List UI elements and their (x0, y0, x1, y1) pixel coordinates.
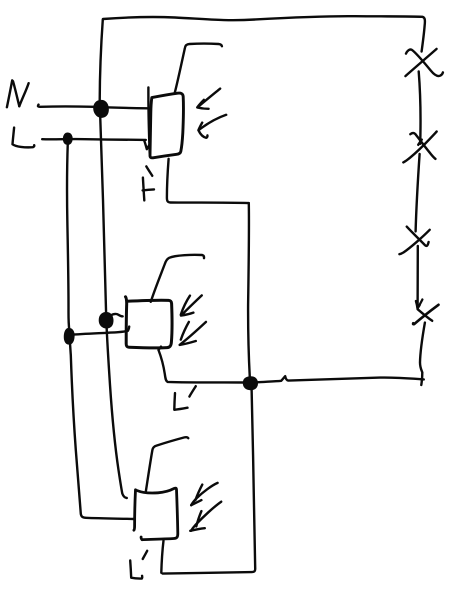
arrow A1 (upper arrow at S1) (198, 89, 220, 107)
switch S3 left edge (134, 490, 136, 530)
switch S3 box (137, 488, 178, 540)
wire S2 stub up (151, 255, 204, 302)
junction dot B (L riser to S2 tap) (65, 329, 73, 343)
label N (7, 80, 12, 107)
wire lamp chain bottom (from X4 down to return corner) (420, 323, 425, 385)
lamp X4 (413, 305, 438, 324)
label L'2 apostrophe (189, 386, 195, 396)
arrow A5 (upper arrow at S3) (191, 483, 217, 505)
junction dot A tail (111, 314, 123, 316)
lamp X1 (406, 50, 443, 76)
junction dot C (244, 378, 256, 389)
wire N feed (horizontal from N label to switch S1) (38, 105, 147, 109)
label L'1 apostrophe (146, 166, 152, 175)
junction N dot (95, 101, 107, 116)
wire S1 out (down then right to trunk) (167, 159, 249, 203)
wire S2 out (down then right to junction C) (159, 347, 245, 383)
arrow A2 (lower arrow at S1) (199, 115, 226, 130)
junction L dot (64, 134, 71, 144)
label L'3 (130, 561, 142, 579)
wire L feed end tick (144, 141, 150, 150)
arrow A4 (lower arrow at S2) (181, 322, 189, 340)
arrow A3 (upper arrow at S2) (181, 296, 190, 315)
wire X3-X4 with arrowhead (416, 246, 419, 308)
switch S2 box (126, 297, 173, 348)
wire C to lamp return (horizontal right) (257, 376, 424, 382)
wire top feed (top border from left riser to lamp chain) (103, 16, 425, 51)
wire S3 stub up (146, 437, 189, 492)
wire L riser (vertical from L junction down, then to bottom switch S3) (67, 143, 134, 520)
wire B tap to switch S2 (horizontal) (71, 327, 130, 335)
wire S3 return down (161, 541, 163, 573)
arrow A6 (lower arrow at S3) (191, 502, 221, 531)
switch S1 box (150, 93, 183, 158)
label L (13, 128, 35, 148)
wire X1-X2 (419, 72, 421, 144)
wire L feed (horizontal from L label to switch S1) (42, 138, 146, 141)
label L'1 (143, 178, 144, 201)
wire trunk below C (down, corner, left to S3 return) (163, 389, 256, 574)
junction dot A (N riser at S2) (100, 313, 112, 327)
lamp X2 (410, 133, 435, 159)
wire X2-X3 (416, 154, 420, 231)
wire left riser N (vertical from top border down to bottom switch) (100, 20, 127, 499)
wire S1 stub up (175, 44, 222, 93)
lamp X2 tick (418, 140, 422, 145)
label L'2 (174, 393, 187, 410)
switch S1 left line (148, 87, 149, 153)
lamp X3 (407, 227, 429, 246)
label L'3 apostrophe (143, 551, 148, 559)
wire trunk vertical (down to junction C) (248, 203, 250, 377)
